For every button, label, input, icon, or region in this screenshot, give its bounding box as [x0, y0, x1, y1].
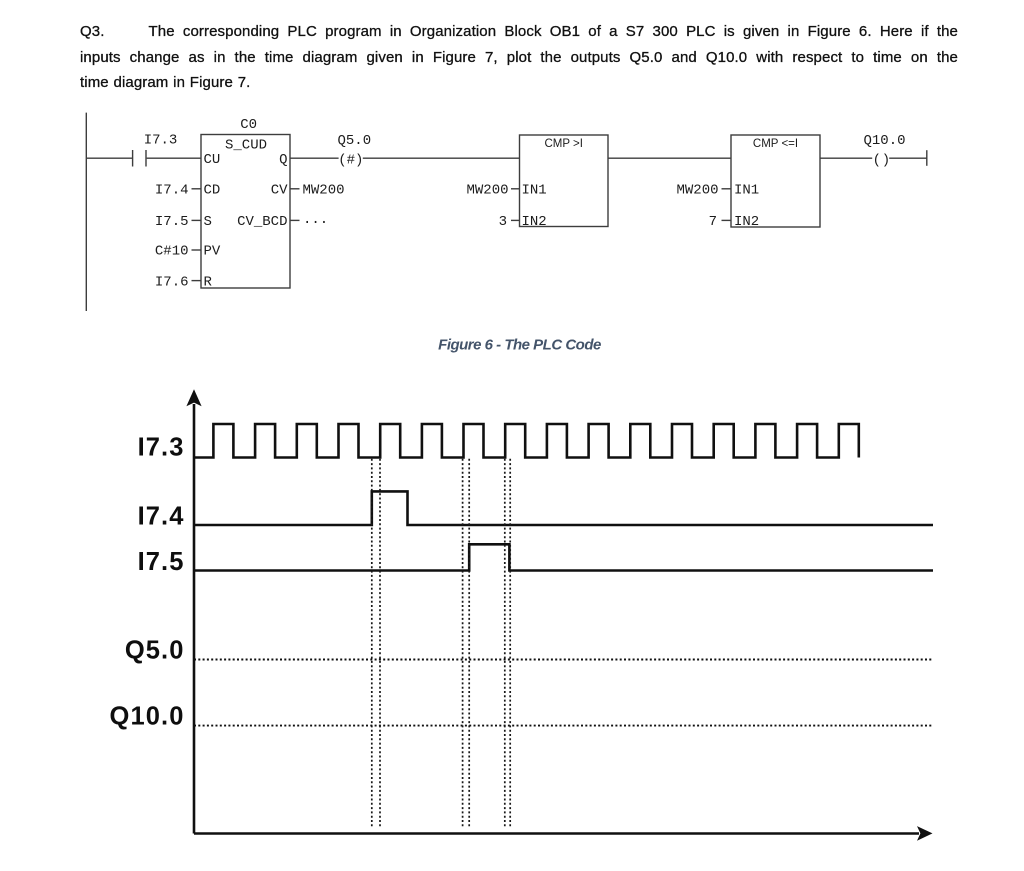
left power rail [85, 113, 87, 311]
svg-text:(: ( [873, 152, 881, 168]
svg-text:C#10: C#10 [155, 244, 189, 260]
operand C#10 on PV [155, 244, 201, 260]
output CV wire to MW200 [290, 183, 345, 199]
caption Figure 6 - The PLC Code [438, 336, 601, 353]
svg-text:): ) [882, 152, 890, 168]
svg-text:IN1: IN1 [734, 183, 759, 199]
svg-text:I7.3: I7.3 [138, 434, 185, 462]
pin CD [204, 183, 221, 199]
wire counter Q to coil Q5.0 [290, 157, 339, 159]
marker line t1a [371, 459, 373, 828]
timing x-axis [194, 826, 933, 841]
svg-text:Q10.0: Q10.0 [110, 703, 185, 731]
svg-text:CV_BCD: CV_BCD [237, 214, 287, 230]
marker line t2a [462, 459, 464, 828]
svg-text:CMP >I: CMP >I [544, 138, 582, 150]
svg-text:CMP <=I: CMP <=I [753, 138, 798, 150]
counter C0 box S_CUD [201, 117, 290, 288]
svg-text:MW200: MW200 [303, 183, 345, 199]
label I7.4 [138, 503, 185, 531]
operand MW200 on CMP1 IN1 [466, 183, 519, 199]
pin Q [279, 152, 287, 168]
svg-text:MW200: MW200 [676, 183, 718, 199]
svg-text:Q5.0: Q5.0 [337, 133, 371, 149]
contact I7.3 [133, 133, 178, 167]
wire contact to counter [147, 157, 201, 159]
signal I7.4 waveform [194, 491, 933, 525]
svg-text:I7.4: I7.4 [138, 503, 185, 531]
label Q5.0 [125, 637, 185, 665]
coil Q10.0 ( ) [863, 133, 905, 169]
signal Q10.0 dotted baseline [194, 725, 933, 727]
signal I7.5 waveform [194, 544, 933, 570]
pin S [204, 214, 212, 230]
label I7.5 [138, 548, 185, 576]
svg-text:Figure 6 - The PLC Code: Figure 6 - The PLC Code [438, 336, 601, 353]
svg-text:CV: CV [271, 183, 288, 199]
svg-text:Q: Q [279, 152, 287, 168]
pin IN2 (CMP2) [734, 214, 759, 230]
marker line t3b [509, 459, 511, 828]
operand 3 on CMP1 IN2 [499, 214, 520, 230]
pin IN1 (CMP1) [522, 183, 547, 199]
svg-text:CU: CU [204, 152, 221, 168]
signal I7.3 clock waveform [194, 424, 859, 458]
operand I7.4 on CD [155, 183, 201, 199]
timing y-axis [186, 389, 201, 833]
svg-text:3: 3 [499, 214, 507, 230]
svg-text:I7.5: I7.5 [155, 214, 189, 230]
wire rung left [86, 157, 132, 159]
operand I7.5 on S [155, 214, 201, 230]
operand 7 on CMP2 IN2 [709, 214, 731, 230]
coil Q5.0 (#) [337, 133, 371, 169]
comparator CMP >I box [520, 135, 609, 227]
svg-text:MW200: MW200 [466, 183, 508, 199]
signal Q5.0 dotted baseline [194, 659, 933, 661]
svg-text:IN2: IN2 [734, 214, 759, 230]
pin CV [271, 183, 288, 199]
pin IN2 (CMP1) [522, 214, 547, 230]
svg-text:I7.5: I7.5 [138, 548, 185, 576]
svg-text:Q10.0: Q10.0 [863, 133, 905, 149]
svg-text:S: S [204, 214, 212, 230]
pin IN1 (CMP2) [734, 183, 759, 199]
svg-text:PV: PV [204, 244, 221, 260]
operand MW200 on CMP2 IN1 [676, 183, 731, 199]
pin R [204, 275, 213, 291]
wire CMP1 to CMP2 [608, 157, 731, 159]
svg-text:Q5.0: Q5.0 [125, 637, 185, 665]
svg-text:IN2: IN2 [522, 214, 547, 230]
svg-text:IN1: IN1 [522, 183, 547, 199]
wire CMP2 to coil Q10.0 [820, 157, 872, 159]
output CV_BCD wire to ... [290, 212, 328, 228]
svg-text:R: R [204, 275, 213, 291]
marker line t2b [468, 459, 470, 828]
marker line t1b [379, 459, 381, 828]
pin CV_BCD [237, 214, 287, 230]
svg-text:S_CUD: S_CUD [225, 138, 267, 154]
comparator CMP <=I box [731, 135, 820, 227]
svg-text:C0: C0 [240, 117, 257, 133]
svg-text:(#): (#) [338, 152, 363, 168]
svg-text:7: 7 [709, 214, 717, 230]
label I7.3 [138, 434, 185, 462]
svg-text:...: ... [303, 212, 328, 228]
right rail bar [926, 150, 928, 166]
label Q10.0 [110, 703, 185, 731]
pin CU [204, 152, 221, 168]
marker line t3a [504, 459, 506, 828]
svg-text:CD: CD [204, 183, 221, 199]
svg-text:I7.6: I7.6 [155, 275, 189, 291]
wire coil Q5.0 to CMP1 [363, 157, 520, 159]
svg-text:I7.4: I7.4 [155, 183, 189, 199]
wire coil Q10.0 to right rail [889, 157, 927, 159]
pin PV [204, 244, 221, 260]
operand I7.6 on R [155, 275, 201, 291]
svg-text:I7.3: I7.3 [144, 133, 178, 149]
